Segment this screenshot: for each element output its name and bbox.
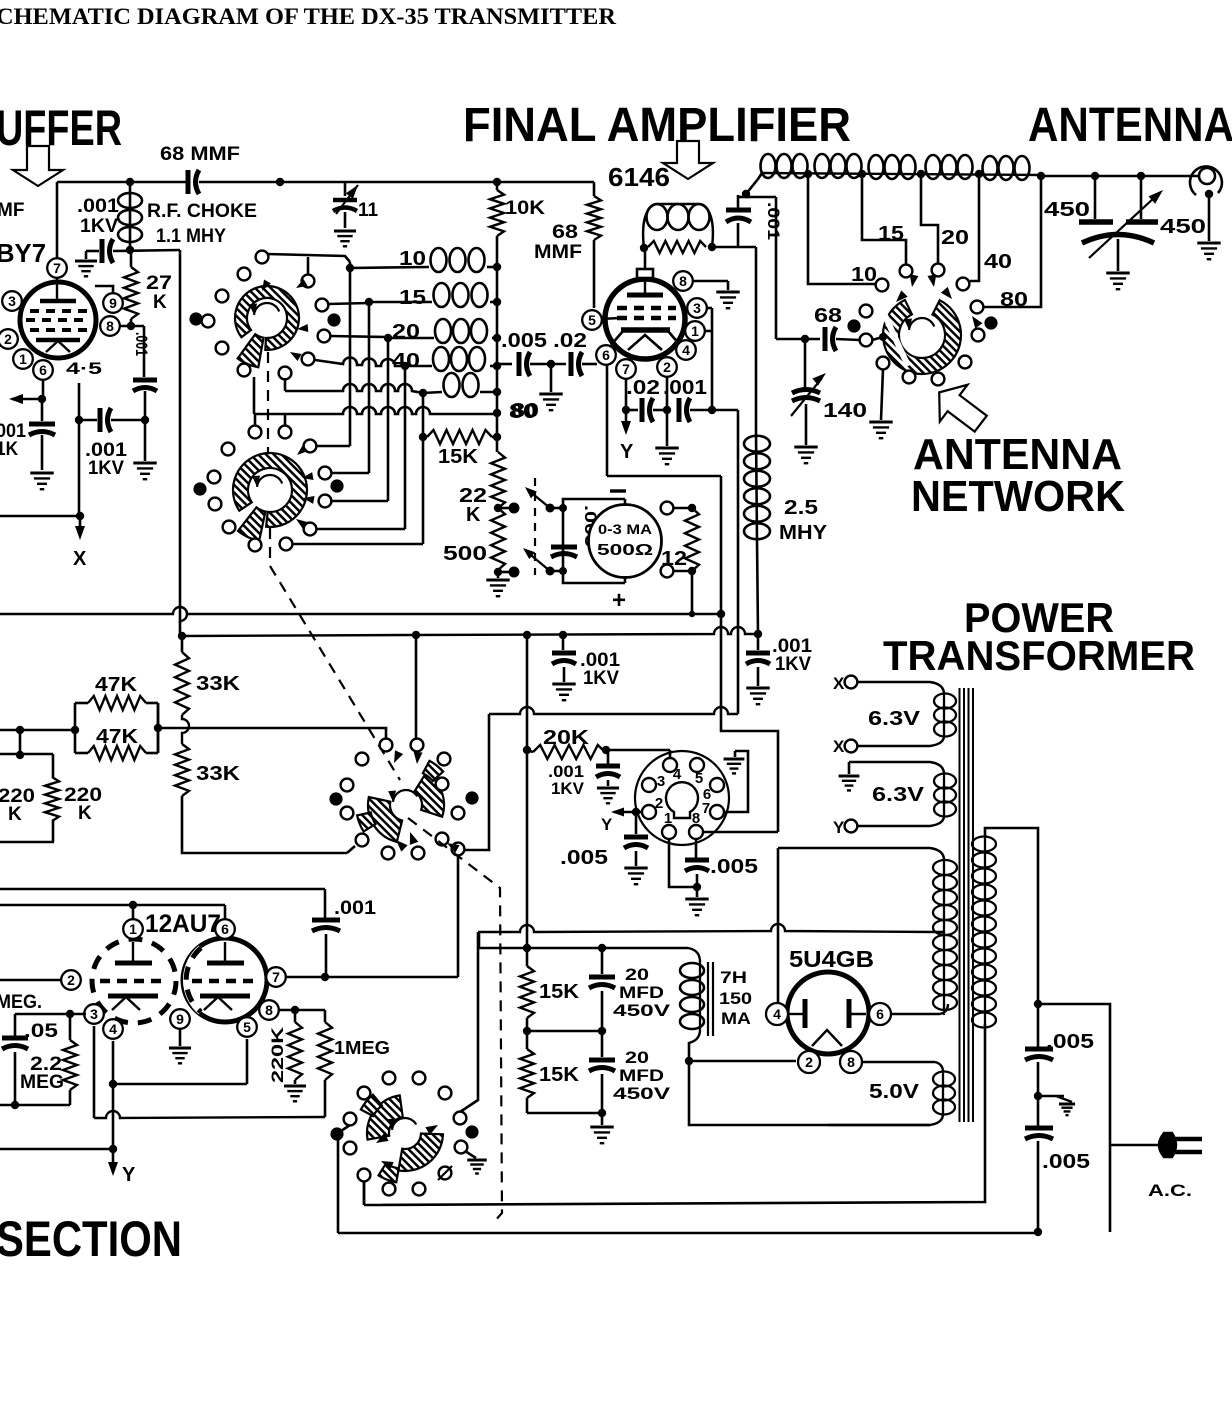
12BY7 cathode [36,338,80,343]
junction X node [76,512,84,520]
meter range contact bottom [661,565,674,578]
wire antenna gnd [1208,194,1211,241]
arrow K (to left) [12,398,42,401]
pin 2 of 12AU7 [61,970,81,990]
svg-text:1: 1 [691,323,699,339]
svg-text:10: 10 [399,248,426,270]
svg-text:7H: 7H [720,968,747,987]
rotary switch S1a rotor (hatched) [235,286,299,350]
svg-text:.001: .001 [132,332,151,356]
arrow X [79,516,82,532]
junction 20mfd1 top [598,944,606,952]
S1a black contact left [189,312,202,325]
pin 3 of 12AU7 [84,1004,104,1024]
wire bus1 (meter return) [0,607,721,614]
ground 220K [284,1085,306,1088]
junction bus2 choke [754,630,762,638]
capacitor .005 (6146 grid in) [497,363,512,366]
junction 47K left [16,726,24,734]
wire 47K node [0,729,75,732]
junction 47K pair left [71,726,79,734]
wire suppressor to choke [712,246,756,249]
svg-text:.001: .001 [334,898,376,919]
svg-text:450: 450 [1044,199,1090,221]
pin 7 of 6146 [616,359,636,379]
wire bleeder mid [527,1030,602,1033]
junction keying node [38,395,46,403]
junction 20K tap [523,746,531,754]
wire choke to 5U4 pin2 [689,1060,796,1063]
svg-text:80: 80 [509,401,537,423]
resistor 15K bleeder 2 [526,1031,529,1049]
wire crossover y391 [285,384,423,393]
ground bus cap left [552,683,575,686]
svg-text:140: 140 [823,400,867,422]
pin 2 of 5U4GB [798,1051,820,1073]
5U4GB filament [812,1030,842,1046]
junction filter input [523,944,531,952]
svg-text:20K: 20K [543,727,590,749]
wire B+ riser to socket [721,614,778,832]
capacitor .001 (cathode) [677,398,682,422]
svg-text:BY7: BY7 [0,238,46,268]
wire S1e right riser [460,932,478,1112]
pin 4 of 5U4GB [766,1003,788,1025]
resistor 10K [496,182,499,190]
junction top rail C [493,178,501,186]
junction y420 right [141,416,149,424]
capacitor .005 (socket pin2) [635,812,638,834]
12AU7 cathode A [108,994,158,999]
rotary switch S1c rotor (hatched C) [883,300,961,374]
AC plug [1110,1144,1164,1147]
S1e black contact right [465,1125,478,1138]
HV center tap [936,931,944,934]
socket center hole [666,782,698,818]
S1d black contact left [329,792,342,805]
svg-text:33K: 33K [196,763,241,785]
svg-text:.005: .005 [710,856,758,878]
svg-text:8: 8 [692,810,700,827]
svg-text:5.0V: 5.0V [869,1081,920,1103]
label minus [610,489,626,492]
resistor 20K [527,750,533,752]
svg-text:SECTION: SECTION [0,1211,182,1267]
svg-text:500: 500 [443,543,487,565]
S1c contact arrows [896,290,908,302]
wire y949 filter node [478,933,481,948]
capacitor .001 1K (pin6) [41,399,44,421]
wire pin2 down [666,377,669,410]
svg-text:MEG.: MEG. [0,992,42,1013]
svg-text:6.3V: 6.3V [872,784,925,806]
rotary switch S1e rotor upper (hatched) [367,1095,403,1139]
capacitor .005 line 2 [1025,1126,1053,1131]
junction ant rail B [1091,172,1099,180]
wire pin7 grid [286,976,458,979]
svg-text:6: 6 [39,362,47,378]
pin 3 of 6146 [687,298,707,318]
wire x738 grid keying drop [737,410,740,714]
wire 20K to socket pin4 [606,749,670,752]
svg-text:TRANSFORMER: TRANSFORMER [883,632,1195,679]
inductor parasitic suppressor [643,204,658,248]
svg-text:.005: .005 [501,330,547,352]
wire pin4 to pin5 [113,1083,247,1086]
svg-text:8: 8 [106,318,114,334]
junction 80m left [419,389,427,397]
resistor 220K (audio) [294,1010,297,1022]
6.3V winding 1 [858,681,930,684]
resistor 220K (b) [52,754,55,777]
capacitor .005 meter [551,545,577,550]
svg-text:1K: 1K [0,439,18,460]
wire keying riser to bus1 [720,476,723,614]
wire pin7 to ground loop [724,751,748,812]
junction 80m tap [419,433,427,441]
wire S1d bottom contact [347,846,355,853]
svg-text:8: 8 [847,1054,855,1070]
svg-text:X: X [833,674,845,693]
pin 9 of 12BY7 [103,293,123,313]
arrow Y (6146) [625,410,628,426]
wire S1b top contact leads [254,414,257,426]
S1e contacts ring [383,1072,396,1085]
junction audio plate [129,901,137,909]
wire pin1 down [669,839,697,887]
meter switch arm bottom [526,551,550,571]
ground 450 [1106,272,1129,275]
junction bus2 left [178,632,186,640]
junction bus2 S1d [412,631,420,639]
wire 12ohm to bus1 [691,571,694,614]
S1a contact arrows [262,279,271,291]
resistor 33K (2) [175,744,189,796]
buffer block arrow [13,146,63,186]
junction ant rail C [1137,172,1145,180]
ground line filter [1056,1096,1072,1102]
resistor parasitic suppressor [648,241,706,253]
tube 12BY7 envelope [20,282,96,358]
wire pin1 riser [132,905,135,919]
wire tap 80m [983,176,1041,307]
5U4GB plates [803,999,808,1028]
resistor 12 ohm [685,508,699,571]
svg-text:MHY: MHY [779,522,828,544]
wire S1a c6 down [284,378,287,391]
svg-text:500Ω: 500Ω [597,542,653,559]
S1d black contact right [465,791,478,804]
wire pin9 to ground bar [95,286,113,293]
S1a black contact right [327,313,340,326]
pin 5 of 6146 [582,310,602,330]
trimmer capacitor 11 [344,182,347,196]
svg-text:450V: 450V [613,1084,671,1103]
S1b black contact left [193,482,206,495]
220K pair bottom wire [0,841,54,844]
ground 500 [486,579,509,582]
capacitor .001 plate blocking [737,195,740,208]
svg-text:2: 2 [67,972,75,988]
ground socket pin7 [734,751,737,757]
wire S1d c2 to 47K node [158,728,386,738]
svg-text:K: K [153,292,167,313]
ground pin6 cap [41,435,44,470]
wire long vertical x180 (osc grid to bus2) [179,250,182,607]
S1e rotor arrow [392,1118,416,1130]
220K pair top wire [0,753,53,756]
wire choke node to 5V return [689,1061,930,1125]
6146 cathode [621,327,670,333]
svg-text:CHEMATIC DIAGRAM OF THE DX-35: CHEMATIC DIAGRAM OF THE DX-35 TRANSMITTE… [0,4,616,29]
capacitor .001 1KV cathode [98,408,103,432]
final amplifier block arrow [663,141,713,179]
svg-text:MEG: MEG [20,1072,64,1093]
junction grid node x712 [708,406,716,414]
svg-text:450V: 450V [613,1001,671,1020]
hop 33K chain over 47K wire [182,715,189,744]
arrow Y (socket) [614,811,636,814]
ground screen cap [144,420,147,461]
svg-text:.001: .001 [764,202,783,240]
junction 220K pair top [16,751,24,759]
svg-text:9: 9 [109,295,117,311]
svg-text:FINAL AMPLIFIER: FINAL AMPLIFIER [463,99,851,152]
rotary switch S1d rotor upper (hatched) [414,773,444,817]
wire tap 20m [921,174,938,263]
svg-text:.02: .02 [553,330,587,352]
wire pin2 (audio in) [0,979,61,982]
S1b rotor arrow [257,475,282,487]
svg-text:15: 15 [878,223,904,245]
wire pin3 top [15,1013,86,1016]
12AU7 grid A [100,979,165,984]
wire 220K drop [19,730,22,755]
S1a contacts ring [256,251,269,264]
junction .05 bottom [11,1101,19,1109]
primary winding [984,836,986,1028]
wire y932 CT line [478,924,936,932]
junction tank tap 40m [975,170,983,178]
svg-text:7: 7 [53,260,61,276]
wire B+ x527 riser [526,635,529,948]
ground trimmer 11 [334,230,356,233]
rotary switch S1e rotor lower (hatched) [398,1134,443,1171]
variable capacitor 450 rotor side [1140,176,1143,219]
wire pin6 keying riser [606,365,609,476]
svg-text:R.F. CHOKE: R.F. CHOKE [147,201,257,222]
svg-text:5: 5 [695,770,703,787]
svg-text:.02: .02 [626,377,660,399]
svg-text:+: + [612,587,626,614]
svg-text:4: 4 [682,342,690,358]
ground socket cap [597,787,619,790]
pin 1 of 12AU7 [123,919,143,939]
meter switch contact top [498,507,514,510]
svg-text:NETWORK: NETWORK [911,472,1125,521]
gang dashed meter switch [534,478,536,575]
capacitor .001 grid [100,239,105,263]
wire line mid ground [1038,1095,1064,1098]
capacitor .001 1KV (bus right) [757,634,760,650]
svg-text:2.5: 2.5 [784,497,818,519]
gang dashed S1a-S1b [267,352,269,453]
junction 220K top [291,1006,299,1014]
capacitor 68MMF coupling [186,170,191,194]
wire S1a top contact to band drop [267,254,350,262]
svg-text:1KV: 1KV [551,779,585,798]
junction 2.2MEG top [66,1010,74,1018]
svg-text:6: 6 [876,1006,884,1022]
inductor 15m osc coil [369,301,432,304]
capacitor 20MFD 450V (2) [601,1031,604,1057]
pin 6 of 5U4GB [869,1003,891,1025]
12AU7 cathode B [200,994,250,999]
S1c rotor arrow [909,318,934,330]
octal socket P1 outline [635,751,729,845]
6146 screen pointer [600,318,620,319]
ground socket pin2 cap [624,867,647,870]
wire band drop 10m x350 [349,262,352,446]
svg-text:7: 7 [702,800,710,817]
wire top rail [57,181,186,184]
wire primary top [985,828,1038,1004]
12BY7 plate [56,271,58,300]
svg-text:68: 68 [552,222,578,243]
wire x180 continuity [179,605,182,623]
svg-text:40: 40 [984,251,1012,273]
ground pin2 cap [666,410,669,446]
wire S1a c7 down [253,377,256,414]
filter choke core [707,962,709,1036]
capacitor .001 1KV (bus left) [562,635,565,650]
svg-text:K: K [78,803,92,824]
junction pin8 node [127,322,135,330]
svg-text:5: 5 [243,1019,251,1035]
antenna connector [1199,168,1215,184]
svg-text:MMF: MMF [534,242,582,263]
rotary switch S1b rotor (hatched) [233,453,307,527]
capacitor .005 (socket pin8) [695,840,698,858]
wire y420 cathode link [79,419,97,422]
svg-text:20: 20 [625,965,649,984]
junction bus2 20K [523,631,531,639]
svg-text:3: 3 [90,1006,98,1022]
svg-text:5: 5 [588,312,596,328]
12AU7 plate B [224,942,226,962]
junction 15m left [365,298,373,306]
svg-text:7: 7 [622,361,630,377]
wire x776 riser [775,197,778,339]
svg-text:1: 1 [129,921,137,937]
junction 10m left [346,264,354,272]
junction 12ohm bottom [688,567,696,575]
ground S1e [465,1151,476,1158]
wire HV top to pin4 [777,848,780,1003]
S1c black contact right [984,316,997,329]
S1c contacts ring [876,279,889,292]
svg-text:2: 2 [805,1054,813,1070]
svg-text:33K: 33K [196,673,241,695]
junction socket pin2 [632,808,640,816]
junction top rail A [126,178,134,186]
wire bus2 to S1d top [415,635,418,738]
pin 6 of 12AU7 [215,919,235,939]
transformer T1 core [959,688,961,1122]
wire bus2 (B+ rail) [182,627,758,636]
svg-text:6146: 6146 [608,162,670,192]
wire 1MEG to pin3 [94,1111,325,1118]
svg-text:11: 11 [358,200,379,221]
inductor 80m osc coil [423,392,442,393]
12AU7 plate A [132,942,134,962]
wire bus x497 [496,236,499,452]
svg-text:MFD: MFD [619,1066,664,1085]
ground 140 [794,446,817,449]
svg-text:150: 150 [719,989,752,1008]
svg-text:27: 27 [146,273,172,294]
svg-text:68: 68 [814,305,842,327]
pin 4 of 6146 [676,340,696,360]
resistor 2.2MEG [69,1014,72,1040]
wire filter node to choke [527,947,602,950]
socket holes [663,758,677,772]
12BY7 grids [30,309,88,313]
junction line mid [1034,1092,1042,1100]
wire pin8 node [279,1009,325,1012]
450 arrow [1089,197,1155,258]
hop x180 over bus1 [180,607,187,621]
svg-text:47K: 47K [96,726,139,748]
6.3V winding 2 [849,761,930,764]
wire S1e lower left contact [363,1181,366,1205]
resistor 33K (1) [181,636,184,652]
junction bleeder mid right [598,1027,606,1035]
svg-text:MFD: MFD [619,983,664,1002]
ground S1c [869,421,892,424]
capacitor .02 (grid) [545,363,566,366]
wire pin9 ground [179,1029,182,1046]
capacitor .001 1KV (socket) [607,752,610,764]
svg-text:5U4GB: 5U4GB [789,946,874,972]
pin 8 of 5U4GB [840,1051,862,1073]
inductor 10m osc coil [350,267,429,268]
svg-text:9: 9 [176,1011,184,1027]
svg-text:1KV: 1KV [583,668,619,689]
5V winding [942,1072,944,1114]
ground filter [601,1113,604,1125]
variable capacitor 140 [804,339,807,388]
capacitor .001 (audio out) [324,889,327,918]
junction pin2 node [663,406,671,414]
inductor 2.5MHY plate choke [755,247,758,432]
wire tap 10m [808,174,876,284]
wire S1a c4 to 20m drop [330,336,388,337]
wire 33K2 to S1d [182,796,347,853]
svg-text:4·5: 4·5 [66,359,102,378]
tube 6146 envelope [605,279,685,359]
svg-text:.005: .005 [1042,1151,1090,1173]
junction 40m left [401,362,409,370]
wire crossover y414 [255,407,497,414]
svg-text:6.3V: 6.3V [868,708,921,730]
svg-text:4: 4 [773,1006,781,1022]
svg-text:12AU7: 12AU7 [145,910,221,938]
wire pin2 socket keying [636,811,642,814]
meter range contact top [661,502,674,515]
svg-text:1MEG: 1MEG [334,1038,390,1058]
svg-text:MA: MA [721,1009,751,1028]
